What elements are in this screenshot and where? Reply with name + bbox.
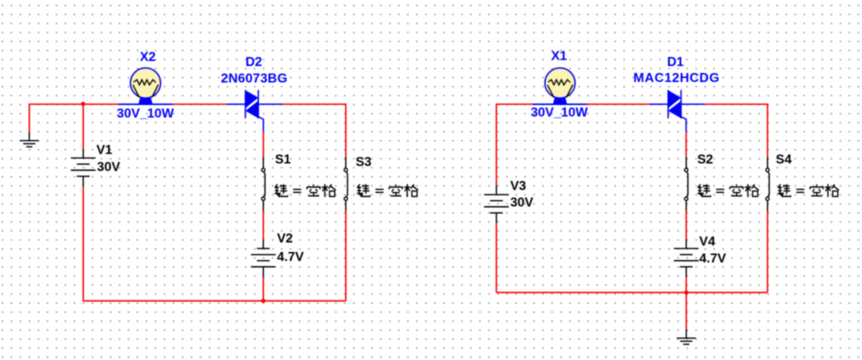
svg-text:30V: 30V	[97, 159, 120, 174]
svg-text:S1: S1	[275, 152, 291, 167]
ground GND1	[20, 132, 39, 147]
wire junction A to V1 positive	[82, 104, 84, 149]
svg-text:S3: S3	[356, 154, 372, 169]
wire S2 to V4	[685, 211, 687, 239]
svg-text:X2: X2	[140, 49, 156, 64]
wire net1 top segment A (ground corner to lamp X2)	[29, 103, 118, 105]
wire S3 branch lower (S3 to bottom wire)	[345, 211, 347, 301]
value Key = Space (S2)	[698, 184, 759, 197]
svg-text:30V_10W: 30V_10W	[531, 105, 589, 120]
switch S1	[262, 157, 265, 211]
switch S3	[344, 157, 347, 211]
node junction A (V1 tap on top wire)	[81, 102, 85, 106]
node junction B (bottom wire)	[261, 299, 265, 303]
wire V3 negative to bottom corner	[495, 223, 497, 292]
svg-text:X1: X1	[551, 48, 567, 63]
svg-text:4.7V: 4.7V	[277, 249, 304, 264]
wire V4 to junction C	[685, 277, 687, 292]
wire D1 gate to S2	[685, 131, 687, 156]
svg-text:MAC12HCDG: MAC12HCDG	[633, 70, 719, 85]
value Key = Space (S4)	[778, 184, 839, 197]
wire bottom net (right circuit)	[496, 292, 767, 294]
switch S4	[766, 157, 769, 211]
switch S2	[685, 157, 688, 211]
svg-text:V4: V4	[699, 234, 716, 249]
lamp X2	[119, 68, 173, 104]
wire V2 to junction B	[262, 277, 264, 301]
svg-text:D1: D1	[667, 54, 684, 69]
svg-text:S2: S2	[697, 151, 713, 166]
value Key = Space (S3)	[357, 184, 418, 197]
svg-text:2N6073BG: 2N6073BG	[221, 70, 288, 85]
wire V1 negative to bottom-left corner	[82, 187, 84, 301]
svg-text:V3: V3	[510, 178, 526, 193]
battery V3	[484, 185, 509, 223]
wire net3 top segment B (lamp X1 to triac D1)	[587, 103, 650, 105]
wire S3 branch upper (corner to S3)	[345, 104, 347, 157]
wire left edge down to V3 positive	[495, 104, 497, 186]
wire junction C to ground	[685, 293, 687, 330]
battery V4	[674, 239, 699, 277]
wire net4 top segment C (triac D1 to S4 corner)	[705, 103, 767, 105]
svg-text:V2: V2	[277, 230, 293, 245]
node junction C (bottom wire right circuit)	[684, 290, 688, 294]
wire net2 top segment C (triac D2 to S3 corner)	[282, 103, 346, 105]
triac D1	[650, 90, 705, 131]
battery V2	[251, 239, 276, 277]
wire D2 gate to S1	[262, 131, 264, 156]
svg-text:30V_10W: 30V_10W	[117, 105, 175, 120]
battery V1	[71, 149, 96, 187]
svg-text:D2: D2	[246, 54, 263, 69]
wire ground drop left	[28, 104, 30, 132]
triac D2	[227, 90, 282, 131]
wire net3 top segment A (V3 corner to lamp X1)	[496, 103, 533, 105]
wire bottom net (left circuit)	[83, 300, 346, 302]
wire net1 top segment B (lamp X2 to triac D2)	[173, 103, 227, 105]
value Key = Space (S1)	[275, 184, 336, 197]
svg-text:30V: 30V	[510, 194, 533, 209]
svg-text:V1: V1	[96, 142, 112, 157]
wire S1 to V2	[262, 211, 264, 239]
ground GND2	[677, 329, 696, 344]
wire S4 branch lower (S4 to bottom wire)	[767, 211, 769, 293]
wire S4 branch upper (corner to S4)	[767, 104, 769, 157]
svg-text:4.7V: 4.7V	[699, 251, 726, 266]
svg-text:S4: S4	[776, 151, 793, 166]
lamp X1	[533, 68, 587, 104]
